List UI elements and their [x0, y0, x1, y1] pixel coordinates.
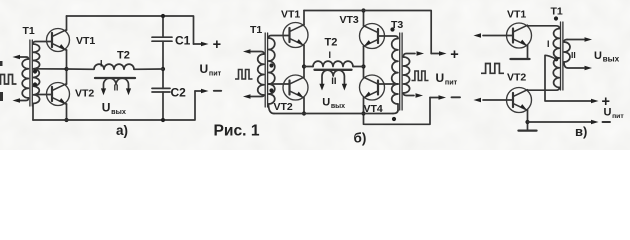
svg-text:T2: T2 [325, 37, 338, 49]
svg-text:VT3: VT3 [340, 14, 359, 26]
svg-text:вых: вых [603, 55, 620, 64]
svg-text:T3: T3 [391, 19, 403, 31]
svg-text:пит: пит [209, 69, 222, 78]
svg-text:VT2: VT2 [75, 88, 94, 100]
svg-text:U: U [322, 96, 330, 108]
svg-text:T1: T1 [551, 6, 563, 18]
svg-text:пит: пит [445, 78, 458, 87]
svg-text:II: II [114, 82, 119, 92]
svg-text:I: I [547, 39, 550, 49]
svg-text:пит: пит [612, 113, 624, 120]
svg-text:VT2: VT2 [274, 101, 293, 113]
svg-text:T1: T1 [23, 25, 35, 37]
svg-text:вых: вых [111, 107, 126, 116]
svg-text:II: II [331, 76, 336, 87]
svg-text:II: II [571, 50, 576, 60]
svg-text:C2: C2 [171, 86, 187, 100]
svg-text:а): а) [116, 123, 128, 138]
svg-text:U: U [436, 71, 445, 85]
svg-text:+: + [450, 47, 458, 63]
svg-text:Рис. 1: Рис. 1 [214, 123, 260, 140]
svg-text:в): в) [575, 124, 587, 139]
svg-text:U: U [594, 50, 602, 62]
svg-text:U: U [102, 100, 111, 114]
svg-text:I: I [329, 50, 332, 60]
svg-text:вых: вых [331, 103, 345, 110]
svg-text:U: U [604, 107, 612, 119]
svg-text:T1: T1 [250, 24, 262, 36]
svg-text:T2: T2 [117, 50, 130, 62]
svg-text:VT1: VT1 [281, 9, 300, 21]
svg-text:I: I [100, 59, 103, 69]
svg-text:U: U [200, 62, 209, 76]
svg-text:VT1: VT1 [507, 9, 526, 21]
svg-text:б): б) [354, 131, 367, 146]
svg-text:VT1: VT1 [76, 35, 95, 47]
svg-text:VT2: VT2 [507, 72, 526, 84]
svg-text:+: + [213, 37, 221, 53]
svg-text:C1: C1 [175, 34, 191, 48]
